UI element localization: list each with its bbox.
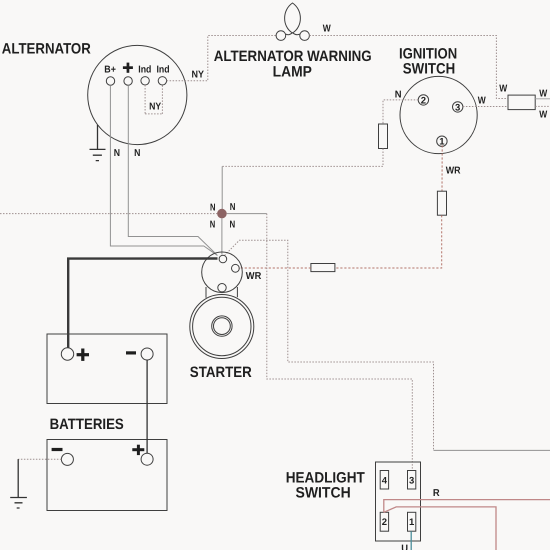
svg-text:N: N xyxy=(210,202,216,213)
svg-text:NY: NY xyxy=(192,69,205,80)
svg-text:N: N xyxy=(230,202,236,213)
svg-text:W: W xyxy=(499,84,507,95)
svg-text:N: N xyxy=(134,148,140,159)
svg-text:3: 3 xyxy=(409,475,414,486)
svg-text:SWITCH: SWITCH xyxy=(296,485,351,502)
svg-text:ALTERNATOR: ALTERNATOR xyxy=(2,40,91,57)
svg-text:N: N xyxy=(230,220,236,231)
svg-text:Ind: Ind xyxy=(157,65,170,76)
svg-text:W: W xyxy=(539,89,547,100)
svg-text:R: R xyxy=(433,488,441,499)
svg-text:N: N xyxy=(395,89,402,100)
svg-text:N: N xyxy=(114,148,120,159)
svg-text:Ind: Ind xyxy=(138,65,151,76)
svg-text:N: N xyxy=(210,220,216,231)
svg-text:1: 1 xyxy=(409,517,415,528)
svg-text:2: 2 xyxy=(421,95,426,106)
svg-text:U: U xyxy=(401,544,408,550)
svg-text:4: 4 xyxy=(382,475,388,486)
svg-text:NY: NY xyxy=(149,101,161,112)
svg-text:B+: B+ xyxy=(104,64,116,75)
svg-text:W: W xyxy=(323,24,331,35)
svg-text:W: W xyxy=(539,110,547,121)
svg-text:BATTERIES: BATTERIES xyxy=(50,416,124,433)
svg-text:3: 3 xyxy=(455,102,460,113)
svg-text:WR: WR xyxy=(446,165,461,176)
svg-text:W: W xyxy=(478,95,486,106)
svg-text:SWITCH: SWITCH xyxy=(403,60,455,77)
svg-text:LAMP: LAMP xyxy=(273,63,312,80)
svg-text:WR: WR xyxy=(246,271,262,282)
svg-text:2: 2 xyxy=(382,517,387,528)
svg-text:STARTER: STARTER xyxy=(190,364,252,381)
